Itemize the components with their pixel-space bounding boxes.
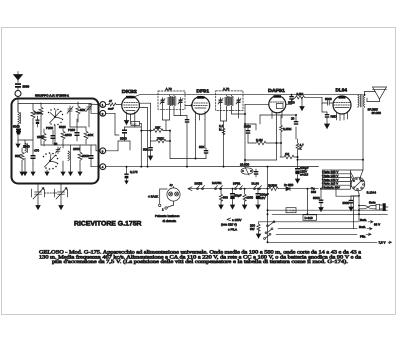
terminal 4 (100, 164, 106, 170)
ground 680 (219, 204, 223, 209)
svg-text:5W: 5W (250, 227, 255, 231)
resistor R4 (61, 127, 65, 144)
resistor 470 (boxed) (131, 119, 142, 126)
resistor 680 filament (219, 189, 222, 204)
svg-text:90 V: 90 V (374, 223, 380, 227)
capacitor C10 blob (17, 130, 21, 135)
GRUPPO A.F. unit box (12, 99, 99, 184)
svg-text:750K: 750K (157, 136, 164, 140)
terminal 1 (100, 102, 106, 108)
annotations mid (227, 218, 231, 221)
electrolytic 50uF (230, 189, 235, 204)
ground DK92 cathode (124, 120, 128, 125)
caption text (39, 250, 362, 266)
svg-text:DL94: DL94 (336, 87, 348, 92)
terminal 2 (100, 110, 106, 116)
capacitor C7 (89, 150, 94, 164)
ground 5000 selector (349, 207, 353, 212)
top plate line (134, 95, 140, 97)
svg-text:Pulsante luminoso: Pulsante luminoso (155, 214, 180, 218)
capacitor C9 blob (36, 116, 40, 127)
capacitor 20 (294, 120, 299, 125)
svg-text:a+113: a+113 (300, 173, 309, 177)
svg-text:50K: 50K (80, 108, 85, 112)
resistor 1M (280, 155, 298, 159)
electrolytic block 100uF 125V (295, 160, 300, 178)
wire antenna into block (17, 97, 19, 113)
svg-text:o PILA: o PILA (228, 227, 237, 231)
ground 50K (148, 155, 152, 160)
svg-text:DF91: DF91 (196, 89, 209, 94)
resistor R1 (31, 106, 35, 123)
resistor R6 (20, 148, 24, 165)
svg-text:SP.080: SP.080 (372, 111, 382, 115)
capacitor RED (325, 112, 330, 123)
coil L3 (68, 151, 71, 161)
svg-text:RED: RED (331, 115, 338, 119)
speaker (365, 87, 387, 102)
svg-text:7,5 V: 7,5 V (379, 240, 386, 244)
svg-text:T 0,5A: T 0,5A (287, 210, 295, 213)
junction dots (140, 94, 365, 244)
resistor 200 5W (257, 222, 260, 233)
resistor R5 (84, 127, 88, 144)
capacitor 0,175 on AVC bus (124, 167, 128, 185)
svg-text:Rete: Rete (369, 201, 376, 205)
svg-text:0,1M: 0,1M (256, 138, 263, 142)
block internal wires (18, 103, 100, 167)
svg-text:470: 470 (132, 123, 137, 126)
voltage selector (350, 172, 364, 191)
svg-text:2K/5W: 2K/5W (268, 184, 277, 188)
svg-text:A.70: A.70 (166, 87, 173, 91)
svg-text:680: 680 (223, 196, 228, 200)
svg-text:50µF: 50µF (235, 194, 242, 198)
selector feed wire (354, 194, 360, 229)
coupling capacitor 47 (106, 103, 122, 106)
AVC bus wire (106, 166, 319, 168)
mains cord and plug (359, 204, 388, 211)
capacitor 5000 DF91 cathode (204, 148, 209, 159)
svg-text:Batt.: Batt. (360, 218, 367, 222)
resistor 1M horizontal (252, 141, 270, 145)
wire IFT1 bottom (163, 105, 188, 131)
svg-text:2000: 2000 (120, 137, 127, 141)
svg-text:47: 47 (109, 100, 112, 103)
wires DAF91 right (286, 97, 322, 104)
wire DK92 pins to bus (106, 113, 142, 166)
svg-text:S.1044: S.1044 (367, 191, 377, 195)
tube DF91 (192, 96, 210, 120)
filament DAF91 pins (215, 186, 223, 190)
svg-text:5000: 5000 (59, 125, 66, 129)
resistor 0,25M (280, 121, 283, 136)
svg-text:P200: P200 (46, 126, 53, 130)
svg-text:P200: P200 (68, 128, 75, 132)
switch bank wires (268, 210, 388, 242)
svg-text:1500: 1500 (65, 133, 72, 137)
diode load wires (245, 104, 269, 155)
variable capacitor CV1 (32, 184, 45, 204)
output transformer T1 (358, 94, 365, 108)
boxed label D-913 (303, 215, 317, 221)
svg-text:470: 470 (34, 149, 39, 153)
IF transformer 2 (216, 91, 243, 111)
terminal 3 (100, 148, 106, 154)
svg-text:DAF91: DAF91 (268, 88, 285, 93)
svg-text:2000: 2000 (23, 145, 30, 149)
switch S.1044 (358, 191, 359, 194)
svg-text:DL94: DL94 (252, 181, 260, 185)
trimmer C11 (56, 147, 61, 154)
grid cap DL94 (322, 101, 333, 105)
svg-text:a 160V: a 160V (232, 218, 242, 222)
oscillator coil L1 (18, 112, 21, 128)
svg-text:4 SA1K: 4 SA1K (148, 194, 158, 198)
resistor R3 (76, 102, 80, 119)
ground 200 (256, 233, 260, 238)
resistor R8 (42, 129, 46, 146)
pushbutton socket (160, 187, 180, 208)
svg-text:20: 20 (291, 117, 295, 121)
fuse T 0,5A (286, 208, 296, 213)
trimmer C3 (67, 106, 73, 114)
svg-text:1M: 1M (285, 152, 290, 156)
filament DF91 pins (235, 186, 243, 190)
svg-text:Batt.: Batt. (359, 225, 366, 229)
svg-text:5000: 5000 (13, 125, 20, 129)
screen line 15K (141, 129, 170, 133)
wires screen node (170, 120, 206, 159)
svg-text:0,5M: 0,5M (297, 92, 304, 96)
switch contacts bank (264, 221, 275, 240)
svg-text:0,25M: 0,25M (283, 127, 292, 131)
svg-text:DAF91: DAF91 (212, 181, 222, 185)
resistor 2K 5W (268, 187, 283, 191)
filament DK92 pins (197, 186, 205, 190)
capacitor AVC (185, 119, 190, 167)
capacitor C6 (31, 150, 36, 164)
capacitor C5 (75, 127, 80, 141)
svg-text:E50: E50 (288, 183, 294, 187)
svg-text:A.70: A.70 (223, 87, 230, 91)
svg-text:K: K (300, 146, 302, 150)
trimmer C4 (86, 104, 92, 112)
resistor 2,2M (222, 128, 225, 135)
wire table to selector node (336, 189, 359, 196)
diode 1 (282, 187, 296, 191)
ground DL94 (325, 123, 330, 129)
capacitor 5000 selector (349, 196, 359, 207)
svg-text:2000: 2000 (23, 85, 30, 89)
svg-text:DK92: DK92 (122, 89, 138, 94)
svg-text:4v: 4v (170, 183, 174, 187)
capacitor 5000 mains (319, 196, 324, 207)
svg-text:15K: 15K (155, 126, 160, 130)
B+ line to transformer (298, 108, 365, 170)
variable capacitor CV2 (55, 184, 68, 204)
capacitor C8 (51, 130, 56, 144)
junction DF91 grid (190, 104, 192, 106)
tube DAF91 (269, 95, 286, 119)
svg-text:di sintonia: di sintonia (163, 219, 177, 223)
rotary switch S1B (43, 152, 59, 170)
gang link (45, 192, 58, 194)
resistor R2 (39, 103, 43, 120)
main vertical feed (267, 167, 269, 243)
svg-text:GRUPPO A.F. N°2055-1: GRUPPO A.F. N°2055-1 (35, 93, 69, 97)
svg-text:D-913: D-913 (305, 216, 314, 220)
capacitor 5000 to pot (254, 169, 258, 177)
mains voltage table (322, 170, 363, 189)
ground 50uF (230, 204, 234, 209)
svg-text:12V: 12V (260, 196, 265, 200)
svg-text:50K: 50K (143, 148, 148, 152)
svg-text:50K: 50K (15, 154, 20, 158)
capacitor 2000 DAF91 (289, 95, 294, 101)
antenna (14, 72, 23, 83)
ground CV1 (36, 203, 40, 210)
ground 0,5M (300, 101, 304, 111)
ground 100uF 125V (295, 178, 299, 183)
volume potentiometer (241, 167, 253, 175)
svg-text:(rete 220 V): (rete 220 V) (221, 223, 237, 227)
svg-text:1500: 1500 (37, 135, 44, 139)
filament DL94 pins (254, 186, 262, 190)
coil L2 (25, 143, 28, 153)
svg-text:Batteria 90V: Batteria 90V (323, 185, 340, 189)
ground 1000 (242, 204, 246, 209)
ground 100uF (256, 204, 260, 209)
ground 5000 (319, 207, 323, 212)
capacitor 2000 antenna (15, 83, 21, 90)
wire IFT2 bottom (221, 105, 246, 167)
capacitor 5000 (16, 129, 21, 141)
svg-text:DF91: DF91 (233, 181, 241, 185)
tube DK92 (122, 96, 140, 120)
svg-text:10K: 10K (88, 133, 93, 137)
ground arrows in block (16, 140, 82, 176)
svg-text:539: 539 (311, 190, 316, 194)
svg-text:mmF: mmF (108, 107, 114, 110)
svg-text:RICEVITORE G.175R: RICEVITORE G.175R (74, 220, 142, 227)
svg-text:1500: 1500 (73, 147, 80, 151)
IF transformer 1 (158, 91, 185, 109)
capacitor 5000 det (246, 128, 251, 136)
svg-text:DK92: DK92 (195, 181, 203, 185)
svg-text:50: 50 (54, 142, 58, 146)
electrolytic 100uF (256, 189, 261, 204)
resistor 4,7K (296, 139, 299, 154)
capacitor 50K bypass (148, 144, 153, 155)
rotary switch S1A (48, 108, 63, 125)
resistor 750K (151, 139, 171, 143)
wires detector to AF (245, 115, 298, 167)
resistor 1000 (243, 189, 246, 204)
svg-text:0,175: 0,175 (130, 170, 138, 174)
svg-text:50K: 50K (199, 145, 204, 149)
svg-text:5000: 5000 (325, 97, 332, 101)
resistor 0,5M (292, 96, 323, 99)
svg-text:pila d'accensione da 7,5 V. (L: pila d'accensione da 7,5 V. (La posizion… (52, 259, 348, 265)
wire x147.5 (140, 107, 148, 109)
svg-text:5000: 5000 (244, 125, 251, 129)
svg-text:Pila: Pila (360, 235, 366, 239)
tube DL94 (333, 96, 351, 121)
resistor R7 (78, 148, 82, 165)
antenna terminal (15, 91, 21, 97)
ground CV2 (59, 203, 63, 210)
svg-text:2000: 2000 (82, 154, 89, 158)
svg-text:5000: 5000 (313, 196, 320, 200)
svg-text:5000: 5000 (343, 201, 350, 205)
filament bus (188, 187, 268, 191)
capacitor 2000 (osc) (122, 127, 127, 136)
svg-text:1000: 1000 (246, 196, 253, 200)
